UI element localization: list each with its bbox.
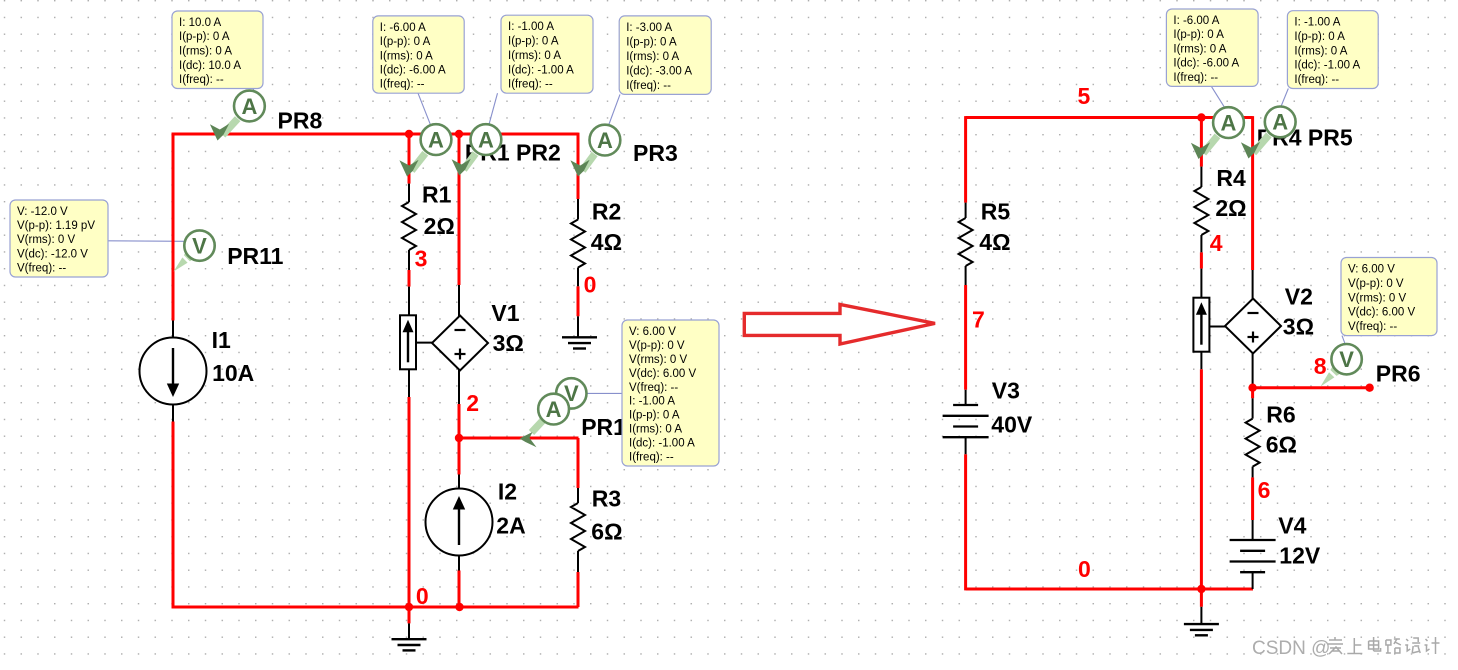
svg-text:I(dc): -1.00 A: I(dc): -1.00 A [508, 64, 574, 76]
resistor R4 [1194, 167, 1208, 253]
wire R3 top [577, 438, 580, 488]
svg-text:I(rms): 0 A: I(rms): 0 A [508, 50, 561, 62]
svg-text:I(p-p): 0 A: I(p-p): 0 A [629, 410, 680, 422]
svg-text:I: -3.00 A: I: -3.00 A [626, 22, 672, 34]
svg-text:V(p-p): 0 V: V(p-p): 0 V [1348, 278, 1404, 290]
V1 sense leads [408, 287, 410, 397]
svg-text:I(p-p): 0 A: I(p-p): 0 A [179, 31, 230, 43]
svg-text:I: -1.00 A: I: -1.00 A [508, 21, 554, 33]
ground under R2 [562, 337, 597, 348]
svg-text:A: A [546, 397, 562, 422]
svg-text:R4: R4 [1216, 165, 1246, 191]
svg-text:R1: R1 [422, 181, 452, 207]
V2 leads [1209, 270, 1252, 388]
battery V3 [943, 405, 989, 437]
wire net 6 R6 to V4 [1251, 477, 1254, 520]
svg-text:R2: R2 [592, 199, 621, 225]
svg-text:V: 6.00 V: V: 6.00 V [629, 326, 676, 338]
svg-text:I(p-p): 0 A: I(p-p): 0 A [1173, 29, 1224, 41]
svg-text:I(rms): 0 A: I(rms): 0 A [1173, 44, 1226, 56]
svg-text:6Ω: 6Ω [591, 519, 622, 545]
wire ground stem left [408, 607, 411, 623]
svg-text:I(rms): 0 A: I(rms): 0 A [626, 51, 679, 63]
svg-text:A: A [478, 127, 494, 152]
wire sensor bottom to node 0 [408, 397, 411, 607]
svg-text:3Ω: 3Ω [493, 330, 524, 356]
svg-text:V1: V1 [491, 300, 519, 326]
svg-text:I(freq): --: I(freq): -- [1294, 74, 1339, 86]
wire left vertical upper [172, 133, 175, 321]
wire net 4 [1200, 252, 1203, 268]
measurement box PR4 [1166, 9, 1258, 86]
probe PR8 [210, 91, 265, 141]
wire I2 bottom [458, 571, 461, 608]
V2 sense leads [1200, 269, 1202, 370]
svg-text:I(freq): --: I(freq): -- [380, 79, 425, 91]
probe PR6 voltmeter [1321, 344, 1362, 387]
svg-text:I2: I2 [498, 479, 517, 505]
I2 leads [458, 475, 460, 571]
svg-text:R3: R3 [592, 485, 621, 511]
svg-text:V(rms): 0 V: V(rms): 0 V [1348, 292, 1406, 304]
svg-text:7: 7 [972, 306, 985, 332]
wire bottom net 0 right [966, 588, 1253, 591]
wire R1 top [408, 134, 411, 184]
battery V4 leads [1252, 520, 1254, 589]
resistor R2 [571, 199, 585, 337]
junction node top R1 [405, 130, 413, 138]
svg-text:R6: R6 [1266, 402, 1295, 428]
svg-text:I(freq): --: I(freq): -- [508, 79, 553, 91]
junction net 8 left [1248, 384, 1256, 392]
svg-text:I(dc): -6.00 A: I(dc): -6.00 A [1173, 58, 1239, 70]
svg-text:V(p-p): 1.19 pV: V(p-p): 1.19 pV [17, 220, 95, 232]
junction node 2 [455, 434, 463, 442]
probe PR1 ammeter [399, 124, 451, 176]
wire node 2 horizontal [459, 437, 579, 440]
svg-text:0: 0 [1078, 556, 1091, 582]
current source I2 [426, 489, 493, 556]
svg-text:A: A [1221, 110, 1237, 135]
svg-text:4Ω: 4Ω [979, 229, 1010, 255]
probe PR4 ammeter [1191, 107, 1244, 159]
svg-text:R5: R5 [981, 198, 1011, 224]
wire V2 top [1251, 116, 1254, 270]
svg-text:0: 0 [416, 583, 429, 609]
wire R4 top [1200, 118, 1203, 167]
wire top left horizontal net PR8 [172, 133, 579, 136]
probe PR11 voltmeter [174, 230, 215, 271]
svg-text:I(p-p): 0 A: I(p-p): 0 A [380, 36, 431, 48]
wire top net 5 [966, 116, 1253, 119]
ground bottom left [392, 639, 427, 650]
measurement box PR2 [501, 15, 593, 93]
battery V4 [1230, 540, 1276, 572]
svg-text:V4: V4 [1278, 513, 1306, 539]
measurement box PR1 [373, 16, 464, 93]
wire left vertical R5 top [964, 116, 967, 203]
svg-text:V(rms): 0 V: V(rms): 0 V [629, 354, 687, 366]
measurement box PR1 dual [622, 320, 719, 466]
svg-text:V: V [192, 233, 207, 258]
watermark CSDN [1252, 637, 1440, 659]
svg-text:PR6: PR6 [1376, 361, 1421, 387]
svg-text:PR1: PR1 [581, 414, 626, 440]
svg-text:V(dc): -12.0 V: V(dc): -12.0 V [17, 248, 88, 260]
svg-text:6: 6 [1258, 477, 1271, 503]
measurement box PR6 [1341, 258, 1437, 336]
svg-text:V(dc): 6.00 V: V(dc): 6.00 V [629, 368, 696, 380]
svg-text:2: 2 [466, 390, 479, 416]
svg-text:V(rms): 0 V: V(rms): 0 V [17, 234, 75, 246]
resistor R1 [402, 184, 416, 270]
resistor R3 [571, 488, 585, 572]
wire ground stem right [1200, 589, 1203, 607]
probe PR1 dual A+V [520, 378, 587, 447]
svg-text:V3: V3 [992, 378, 1020, 404]
wire node 3 segment [408, 270, 411, 287]
svg-text:2A: 2A [496, 512, 525, 538]
wire R2 top [577, 133, 580, 199]
svg-text:5: 5 [1078, 83, 1091, 109]
controlled voltage source V2 [1225, 299, 1281, 354]
svg-text:V(dc): 6.00 V: V(dc): 6.00 V [1348, 307, 1415, 319]
svg-text:I: -6.00 A: I: -6.00 A [380, 22, 426, 34]
svg-text:8: 8 [1314, 353, 1327, 379]
measurement box PR5 [1287, 11, 1378, 89]
svg-text:I: -1.00 A: I: -1.00 A [629, 396, 675, 408]
svg-text:I(dc): 10.0 A: I(dc): 10.0 A [179, 60, 241, 72]
svg-text:2Ω: 2Ω [1215, 195, 1246, 221]
junction node 0 I2 [455, 603, 463, 611]
svg-text:I(dc): -1.00 A: I(dc): -1.00 A [1294, 60, 1360, 72]
transformation arrow [744, 304, 935, 344]
junction net 5 [1197, 113, 1205, 121]
wire R3 bottom [577, 572, 580, 607]
svg-text:3Ω: 3Ω [1283, 313, 1314, 339]
wire V3 bottom to net 0 [964, 454, 967, 590]
svg-text:V: V [1339, 347, 1354, 372]
wire left vertical lower [172, 422, 175, 609]
svg-text:CSDN @: CSDN @ [1252, 638, 1330, 659]
probe PR5 ammeter [1241, 107, 1296, 159]
svg-text:I1: I1 [212, 327, 231, 353]
svg-text:I(freq): --: I(freq): -- [626, 80, 671, 92]
svg-text:I(freq): --: I(freq): -- [179, 74, 224, 86]
wire V1 bottom node 2 [458, 404, 461, 475]
svg-text:A: A [597, 128, 613, 153]
controlled voltage source V1 [432, 316, 488, 371]
wire V1 top [458, 134, 461, 285]
svg-text:V(freq): --: V(freq): -- [629, 382, 678, 394]
svg-text:A: A [428, 127, 444, 152]
svg-text:2Ω: 2Ω [424, 213, 455, 239]
ground bottom right [1184, 624, 1219, 635]
svg-text:V: -12.0 V: V: -12.0 V [17, 206, 68, 218]
svg-text:I(p-p): 0 A: I(p-p): 0 A [626, 36, 677, 48]
svg-text:PR3: PR3 [633, 140, 678, 166]
svg-text:V: 6.00 V: V: 6.00 V [1348, 264, 1395, 276]
svg-text:I(freq): --: I(freq): -- [629, 452, 674, 464]
svg-text:I(dc): -3.00 A: I(dc): -3.00 A [626, 65, 692, 77]
svg-text:PR11: PR11 [227, 243, 283, 269]
svg-text:I(rms): 0 A: I(rms): 0 A [380, 50, 433, 62]
current sense branch of V1 [400, 315, 416, 369]
leader lines from measurement boxes to probes [108, 86, 1345, 393]
svg-text:I: 10.0 A: I: 10.0 A [179, 17, 222, 29]
svg-text:40V: 40V [991, 411, 1033, 437]
wire R6 top [1251, 388, 1254, 399]
resistor R5 [959, 203, 973, 285]
svg-text:I: -6.00 A: I: -6.00 A [1173, 15, 1219, 27]
svg-text:V(freq): --: V(freq): -- [17, 263, 66, 275]
measurement box PR3 [619, 16, 711, 95]
svg-text:I(freq): --: I(freq): -- [1173, 72, 1218, 84]
svg-text:4: 4 [1210, 230, 1223, 256]
wire end dot net 8 right [1365, 384, 1373, 392]
wire bottom net 0 [172, 606, 579, 609]
junction net 0 right [1197, 585, 1205, 593]
svg-text:3: 3 [415, 246, 428, 272]
svg-text:V(freq): --: V(freq): -- [1348, 321, 1397, 333]
svg-text:4Ω: 4Ω [591, 229, 622, 255]
I1 leads [172, 321, 174, 422]
svg-text:A: A [1272, 110, 1288, 135]
current source I1 [140, 338, 207, 405]
svg-text:PR8: PR8 [278, 108, 323, 134]
junction node top V1 [455, 130, 463, 138]
wire net 7 R5 to V3 [964, 285, 967, 390]
svg-text:10A: 10A [212, 360, 254, 386]
svg-text:12V: 12V [1279, 542, 1321, 568]
svg-text:V2: V2 [1285, 283, 1313, 309]
current sense branch of V2 [1193, 298, 1209, 352]
V1 leads [416, 285, 459, 404]
svg-text:I(rms): 0 A: I(rms): 0 A [179, 46, 232, 58]
svg-text:I: -1.00 A: I: -1.00 A [1294, 17, 1340, 29]
probe PR3 ammeter [570, 125, 620, 177]
probe PR2 ammeter [452, 124, 502, 175]
svg-text:I(p-p): 0 A: I(p-p): 0 A [508, 36, 559, 48]
svg-text:I(dc): -1.00 A: I(dc): -1.00 A [629, 438, 695, 450]
svg-text:I(dc): -6.00 A: I(dc): -6.00 A [380, 65, 446, 77]
svg-text:I(rms): 0 A: I(rms): 0 A [629, 424, 682, 436]
svg-text:0: 0 [584, 271, 597, 297]
wire net 8 horizontal [1253, 386, 1370, 389]
svg-text:V(p-p): 0 V: V(p-p): 0 V [629, 340, 685, 352]
svg-text:I(p-p): 0 A: I(p-p): 0 A [1294, 31, 1345, 43]
svg-text:A: A [241, 94, 257, 119]
measurement box PR11 [10, 200, 108, 277]
svg-text:6Ω: 6Ω [1266, 432, 1297, 458]
measurement box PR8 [172, 11, 263, 89]
junction node 0 ground [405, 603, 413, 611]
wire R2 bottom node 0 [577, 286, 580, 316]
svg-text:I(rms): 0 A: I(rms): 0 A [1294, 45, 1347, 57]
battery V3 leads [965, 390, 967, 454]
wire sensor V2 bottom [1200, 369, 1203, 589]
resistor R6 [1246, 398, 1260, 477]
